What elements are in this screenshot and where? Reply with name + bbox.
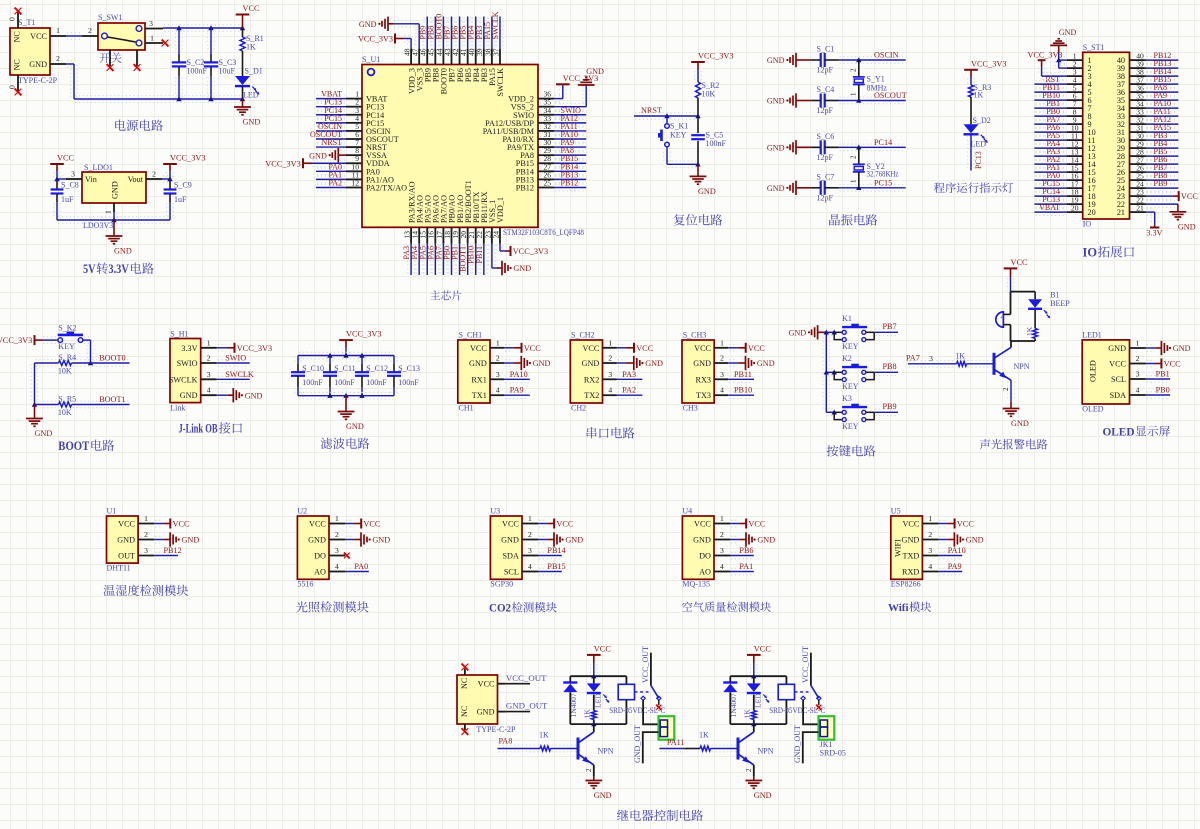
svg-text:NRST: NRST xyxy=(641,106,662,115)
svg-text:S_C10: S_C10 xyxy=(302,364,324,373)
svg-text:PA9: PA9 xyxy=(510,386,524,395)
U1 top net label wires xyxy=(424,17,503,49)
svg-text:100nF: 100nF xyxy=(187,67,208,76)
svg-text:VCC: VCC xyxy=(309,520,326,529)
net GND_OUT wire xyxy=(506,701,548,712)
svg-text:DO: DO xyxy=(699,552,711,561)
svg-text:CH2: CH2 xyxy=(571,404,586,413)
svg-text:VCC: VCC xyxy=(173,520,191,529)
svg-text:GND: GND xyxy=(582,359,600,368)
svg-text:TX3: TX3 xyxy=(696,391,711,400)
svg-text:100nF: 100nF xyxy=(366,378,387,387)
ground GND pin VSS_2 xyxy=(554,67,604,110)
svg-text:GND: GND xyxy=(966,536,984,545)
svg-text:24: 24 xyxy=(491,231,500,239)
svg-text:PA2/TX/AO: PA2/TX/AO xyxy=(366,183,407,192)
resistor S_R1 1K xyxy=(240,28,264,76)
display LED1 OLED body xyxy=(1082,331,1145,414)
resistor S_R2 10K xyxy=(696,81,720,116)
svg-text:2: 2 xyxy=(207,354,211,363)
svg-text:K3: K3 xyxy=(842,394,852,403)
svg-text:S_CH3: S_CH3 xyxy=(683,331,707,340)
title 温湿度检测模块 xyxy=(103,585,188,596)
capacitor S_C13 100nF xyxy=(387,356,420,396)
net PA2 S_CH2 pin4 xyxy=(617,386,643,399)
capacitor S_C11 100nF xyxy=(323,356,356,396)
svg-text:2: 2 xyxy=(850,155,858,159)
power port VCC_3V3 LDO out xyxy=(163,154,205,179)
svg-text:100nF: 100nF xyxy=(302,378,323,387)
svg-text:GND_OUT: GND_OUT xyxy=(793,725,802,763)
ground GND U5 pin2 xyxy=(938,532,983,546)
svg-text:VCC: VCC xyxy=(748,520,766,529)
LED S_D1 xyxy=(235,67,263,100)
svg-text:VCC_3V3: VCC_3V3 xyxy=(358,35,393,44)
svg-text:VCC: VCC xyxy=(902,520,919,529)
wire relay2 top node xyxy=(730,673,786,678)
svg-text:LED: LED xyxy=(243,91,259,100)
svg-text:2: 2 xyxy=(496,354,500,363)
power VCC U3 pin1 xyxy=(538,519,574,529)
U1 right pins and wires xyxy=(538,90,586,191)
relay1 contact blade xyxy=(635,685,662,710)
relay1 contact to connector xyxy=(643,700,658,724)
svg-text:4: 4 xyxy=(496,386,500,395)
title 滤波电路 xyxy=(321,438,370,449)
svg-text:SCL: SCL xyxy=(504,568,519,577)
svg-text:12pF: 12pF xyxy=(817,193,834,202)
svg-text:PA2: PA2 xyxy=(329,178,343,187)
ground GND LDO xyxy=(106,220,132,256)
svg-text:GND: GND xyxy=(513,264,531,273)
svg-text:VCC: VCC xyxy=(556,520,574,529)
svg-text:PA3: PA3 xyxy=(622,370,636,379)
U1 top net labels xyxy=(418,11,500,39)
svg-text:OLED: OLED xyxy=(1089,360,1098,382)
svg-text:NPN: NPN xyxy=(758,747,774,756)
connector S_H1 body xyxy=(169,330,217,413)
svg-text:GND: GND xyxy=(1178,222,1196,231)
svg-text:1K: 1K xyxy=(246,43,256,52)
ground GND crystal row 4 xyxy=(767,181,812,195)
svg-text:2: 2 xyxy=(144,530,148,539)
net PA9 S_CH1 pin4 xyxy=(504,386,530,399)
net GND_OUT relay1 xyxy=(633,725,659,763)
svg-text:PB7: PB7 xyxy=(883,322,897,331)
svg-text:SWCLK: SWCLK xyxy=(491,11,500,39)
svg-text:PB11: PB11 xyxy=(734,370,752,379)
capacitor S_C8 1uF xyxy=(51,179,79,220)
net label PC15 xyxy=(874,178,892,187)
svg-text:3: 3 xyxy=(608,370,612,379)
svg-text:S_C9: S_C9 xyxy=(174,181,192,190)
resistor S_R5 10K xyxy=(35,395,130,418)
svg-text:GND: GND xyxy=(754,791,772,800)
svg-text:VCC: VCC xyxy=(478,680,495,689)
svg-text:2: 2 xyxy=(745,768,753,772)
svg-text:1K: 1K xyxy=(743,709,752,719)
svg-text:PC15: PC15 xyxy=(874,178,892,187)
svg-text:RXD: RXD xyxy=(902,568,919,577)
svg-text:GND: GND xyxy=(586,67,604,76)
connector S_CH2 body xyxy=(570,331,616,413)
resistor 1K beeper xyxy=(1025,310,1038,341)
svg-text:4: 4 xyxy=(1136,386,1140,395)
svg-text:4: 4 xyxy=(928,562,932,571)
ground GND jlink pin4 xyxy=(217,388,263,402)
svg-text:S_C7: S_C7 xyxy=(817,172,835,181)
svg-text:GND: GND xyxy=(309,151,327,160)
svg-text:VCC: VCC xyxy=(57,154,75,163)
svg-text:25: 25 xyxy=(544,178,552,187)
svg-text:1: 1 xyxy=(528,514,532,523)
svg-text:K1: K1 xyxy=(842,314,852,323)
svg-text:2: 2 xyxy=(928,530,932,539)
svg-text:Vin: Vin xyxy=(85,175,97,184)
capacitor S_C5 100nF xyxy=(691,116,726,164)
net PB8 key xyxy=(874,362,898,376)
wire crystal row 3 xyxy=(839,144,906,151)
svg-text:VCC_3V3: VCC_3V3 xyxy=(237,344,273,353)
resistor S_R4 10K xyxy=(35,353,130,376)
capacitor S_C6 12pF xyxy=(812,132,839,162)
svg-text:VCC: VCC xyxy=(636,344,654,353)
svg-text:GND: GND xyxy=(29,60,47,69)
svg-text:GND: GND xyxy=(182,536,200,545)
svg-text:VCC: VCC xyxy=(524,344,542,353)
transistor NPN beeper xyxy=(994,341,1030,380)
relay2 contact to connector xyxy=(803,700,818,724)
ground GND S_CH2 pin2 xyxy=(617,356,664,370)
power port VCC beeper xyxy=(1004,258,1028,292)
net SWIO jlink pin2 xyxy=(217,354,250,367)
svg-text:4: 4 xyxy=(528,562,532,571)
power VCC S_CH1 pin1 xyxy=(504,343,541,353)
relay coil SRD-05VDC-SL-C relay2 xyxy=(769,676,825,724)
title J-Link OB接口 xyxy=(179,422,243,436)
wire LDO output xyxy=(162,176,173,183)
svg-text:OLED: OLED xyxy=(1082,405,1104,414)
svg-text:4: 4 xyxy=(720,386,724,395)
svg-text:S_K1: S_K1 xyxy=(670,122,688,131)
svg-text:S_C13: S_C13 xyxy=(398,364,420,373)
net PB6 U4 pin3 xyxy=(730,546,754,559)
net VCC_OUT wire xyxy=(506,673,547,684)
diode 1N4007 relay2 xyxy=(723,676,738,724)
ground GND power circuit xyxy=(234,99,260,127)
svg-text:2: 2 xyxy=(88,26,92,35)
ic S_U1 STM32F103C8T6 body xyxy=(362,55,584,237)
svg-text:KEY: KEY xyxy=(58,342,75,351)
svg-text:GND: GND xyxy=(243,118,261,127)
ground GND pin VSS_1 xyxy=(489,244,532,275)
S_ST1 left net labels xyxy=(1039,75,1060,212)
svg-text:3: 3 xyxy=(207,370,211,379)
capacitor S_C4 12pF xyxy=(812,85,839,115)
svg-text:WIFI: WIFI xyxy=(894,539,903,557)
svg-text:1: 1 xyxy=(56,26,60,35)
svg-text:VCC_3V3: VCC_3V3 xyxy=(971,59,1007,68)
svg-text:1K: 1K xyxy=(955,352,965,361)
net PB15 U3 pin4 xyxy=(538,562,566,575)
svg-text:1: 1 xyxy=(207,338,211,347)
module U5 WIFI label xyxy=(894,539,903,557)
svg-text:VCC_3V3: VCC_3V3 xyxy=(1028,51,1063,60)
svg-text:U2: U2 xyxy=(297,507,307,516)
ground GND relay1 xyxy=(585,777,611,800)
svg-text:12: 12 xyxy=(351,178,359,187)
svg-text:3.3V: 3.3V xyxy=(108,262,129,276)
power port VCC xyxy=(236,4,260,28)
svg-text:NC: NC xyxy=(460,677,469,689)
svg-text:PB15: PB15 xyxy=(547,562,565,571)
net PA10 U5 pin3 xyxy=(938,546,965,559)
svg-text:VCC_3V3: VCC_3V3 xyxy=(265,159,301,168)
title 声光报警电路 xyxy=(980,439,1048,450)
wire emitter gnd relay2 xyxy=(745,765,754,777)
svg-text:VCC_OUT: VCC_OUT xyxy=(801,646,810,683)
svg-text:12pF: 12pF xyxy=(817,106,834,115)
power port VCC_3V3 boot xyxy=(0,335,58,345)
module U5 ESP8266 body xyxy=(891,507,939,589)
svg-text:1: 1 xyxy=(850,92,858,96)
wire VCC rail top xyxy=(163,25,245,32)
svg-text:VCC: VCC xyxy=(694,520,711,529)
svg-text:2: 2 xyxy=(585,768,593,772)
svg-text:VCC: VCC xyxy=(754,645,772,654)
svg-text:5516: 5516 xyxy=(297,580,313,589)
svg-text:PA10: PA10 xyxy=(948,546,966,555)
U1 right net labels xyxy=(561,106,582,188)
svg-text:VCC_3V3: VCC_3V3 xyxy=(513,247,549,256)
svg-text:1N4007: 1N4007 xyxy=(729,693,738,717)
power VCC_3V3 pin VDD_1 xyxy=(497,244,549,256)
svg-text:PA0: PA0 xyxy=(354,562,368,571)
svg-text:GND: GND xyxy=(693,536,711,545)
key K3 KEY xyxy=(826,394,874,431)
svg-text:3.3V: 3.3V xyxy=(181,344,197,353)
svg-text:TX1: TX1 xyxy=(472,391,487,400)
title 复位电路 xyxy=(674,214,723,225)
svg-text:S_H1: S_H1 xyxy=(170,330,188,339)
wire crystal row 2 xyxy=(839,97,906,104)
power VCC IO pin23 xyxy=(1146,191,1199,201)
title IO拓展口 xyxy=(1083,246,1135,260)
svg-text:PB12: PB12 xyxy=(516,183,534,192)
ground GND U1 pin2 xyxy=(154,532,199,546)
svg-text:OSCIN: OSCIN xyxy=(874,51,899,60)
svg-text:SGP30: SGP30 xyxy=(490,580,513,589)
svg-text:S_Y1: S_Y1 xyxy=(867,75,885,84)
svg-text:S_C6: S_C6 xyxy=(817,132,835,141)
svg-text:S_ST1: S_ST1 xyxy=(1083,43,1105,52)
svg-text:PA9: PA9 xyxy=(948,562,962,571)
svg-text:KEY: KEY xyxy=(842,382,859,391)
wire key bus xyxy=(823,330,830,413)
wire reset bottom xyxy=(667,161,701,168)
svg-text:1K: 1K xyxy=(583,709,592,719)
title 按键电路 xyxy=(827,445,876,456)
svg-text:SWCLK: SWCLK xyxy=(169,375,198,384)
power port VCC relay2 xyxy=(747,645,771,677)
svg-text:GND: GND xyxy=(757,359,775,368)
net label PC13 indicator xyxy=(974,151,983,169)
svg-text:VCC: VCC xyxy=(582,344,599,353)
svg-text:4: 4 xyxy=(335,562,339,571)
net PB14 U3 pin3 xyxy=(538,546,566,559)
svg-text:TYPE-C-2P: TYPE-C-2P xyxy=(476,725,516,734)
svg-text:GND: GND xyxy=(359,20,377,29)
no-connect X U2 pin3 xyxy=(344,553,350,559)
svg-text:VCC_OUT: VCC_OUT xyxy=(506,673,547,683)
svg-text:NC: NC xyxy=(13,59,22,71)
svg-text:GND: GND xyxy=(477,708,495,717)
svg-text:Link: Link xyxy=(170,404,185,413)
svg-text:GND: GND xyxy=(767,97,785,106)
svg-text:PB1: PB1 xyxy=(1156,370,1170,379)
power VCC_3V3 pin VDDA xyxy=(265,158,346,168)
capacitor S_C9 1uF xyxy=(164,179,192,220)
net label BOOT0 xyxy=(99,354,125,363)
svg-text:RX3: RX3 xyxy=(696,375,711,384)
power port VCC relay1 xyxy=(587,645,611,677)
svg-text:4: 4 xyxy=(720,562,724,571)
svg-text:1K: 1K xyxy=(539,731,549,740)
svg-text:VCC: VCC xyxy=(1109,360,1126,369)
buzzer B1 BEEP xyxy=(996,291,1071,342)
svg-text:100nF: 100nF xyxy=(706,139,727,148)
svg-text:GND_OUT: GND_OUT xyxy=(633,725,642,763)
svg-text:VCC_3V3: VCC_3V3 xyxy=(346,330,382,339)
svg-text:GND: GND xyxy=(180,391,198,400)
key S_K2 KEY xyxy=(58,323,83,351)
power VCC S_CH3 pin1 xyxy=(728,343,765,353)
svg-text:PB10: PB10 xyxy=(734,386,752,395)
power port VCC_3V3 filter xyxy=(339,330,381,356)
svg-text:VCC: VCC xyxy=(594,645,612,654)
svg-text:AO: AO xyxy=(699,568,711,577)
key K2 KEY xyxy=(826,354,874,391)
svg-text:TX2: TX2 xyxy=(584,391,599,400)
svg-text:MQ-135: MQ-135 xyxy=(682,580,710,589)
svg-text:12pF: 12pF xyxy=(817,153,834,162)
svg-text:3: 3 xyxy=(496,370,500,379)
power VCC_3V3 IO pin3 xyxy=(1028,51,1067,80)
svg-text:CH3: CH3 xyxy=(683,404,698,413)
svg-text:3.3V: 3.3V xyxy=(1146,229,1162,238)
svg-text:1uF: 1uF xyxy=(174,195,187,204)
power VCC U5 pin1 xyxy=(938,519,974,529)
svg-text:VCC: VCC xyxy=(748,344,766,353)
svg-text:3: 3 xyxy=(928,546,932,555)
svg-text:SWCLK: SWCLK xyxy=(225,370,254,379)
svg-text:LDO3V3: LDO3V3 xyxy=(83,221,113,230)
svg-text:21: 21 xyxy=(1117,208,1125,217)
wire K2 to BOOT0 xyxy=(83,337,94,365)
power 3.3V IO pin21 xyxy=(1146,209,1163,238)
ground GND crystal row 3 xyxy=(767,140,812,154)
svg-text:VCC: VCC xyxy=(957,520,975,529)
svg-text:1: 1 xyxy=(608,338,612,347)
svg-text:37: 37 xyxy=(491,48,500,56)
svg-text:S_R5: S_R5 xyxy=(58,395,76,404)
U1 bottom pins xyxy=(403,227,501,244)
svg-text:LED: LED xyxy=(971,140,987,149)
svg-text:CO2: CO2 xyxy=(489,603,511,615)
net SWCLK jlink pin3 xyxy=(217,370,254,383)
net GND_OUT relay2 xyxy=(793,725,819,763)
svg-text:GND: GND xyxy=(902,536,920,545)
net PA0 U2 pin4 xyxy=(345,562,369,575)
svg-text:VCC: VCC xyxy=(30,32,47,41)
title 5V转3.3V电路 xyxy=(83,262,154,276)
svg-text:PB14: PB14 xyxy=(547,546,565,555)
svg-text:PA8: PA8 xyxy=(499,737,513,746)
LED relay2 xyxy=(747,676,770,708)
svg-text:BOOT: BOOT xyxy=(58,439,89,453)
svg-text:1: 1 xyxy=(150,34,154,43)
ground GND pin VSS_3 xyxy=(359,17,423,49)
svg-text:PC13: PC13 xyxy=(974,151,983,169)
wire filter bottom rail xyxy=(298,392,394,399)
svg-text:GND: GND xyxy=(1108,344,1126,353)
svg-text:U3: U3 xyxy=(490,507,500,516)
ground GND IO pin22 xyxy=(1146,201,1196,232)
capacitor S_C10 100nF xyxy=(291,356,324,396)
svg-text:S_CH2: S_CH2 xyxy=(571,331,595,340)
wire filter top rail xyxy=(298,352,394,359)
svg-text:VCC: VCC xyxy=(694,344,711,353)
svg-text:J-Link OB: J-Link OB xyxy=(179,422,218,436)
S_ST1 right net labels xyxy=(1154,51,1172,188)
connector S_CH1 body xyxy=(458,331,504,413)
regulator S_LDO1 xyxy=(66,163,162,214)
svg-text:3: 3 xyxy=(929,354,933,363)
net PA3 S_CH2 pin3 xyxy=(617,370,643,383)
svg-text:DHT11: DHT11 xyxy=(107,563,131,572)
svg-text:K2: K2 xyxy=(842,354,852,363)
svg-text:S_C11: S_C11 xyxy=(334,364,356,373)
svg-text:S_D1: S_D1 xyxy=(245,67,263,76)
svg-text:10K: 10K xyxy=(58,367,72,376)
svg-text:1: 1 xyxy=(720,338,724,347)
title OLED显示屏 xyxy=(1103,426,1170,439)
svg-text:ESP8266: ESP8266 xyxy=(891,580,921,589)
switch S_SW1 xyxy=(82,13,163,66)
svg-text:CH1: CH1 xyxy=(459,404,474,413)
capacitor S_C3 10uF xyxy=(204,28,236,99)
title 程序运行指示灯 xyxy=(934,182,1013,193)
svg-text:GND: GND xyxy=(372,536,390,545)
svg-text:3: 3 xyxy=(335,546,339,555)
svg-text:VBAT: VBAT xyxy=(1039,203,1060,212)
ground GND filter xyxy=(338,396,364,431)
svg-text:1K: 1K xyxy=(974,91,984,100)
svg-text:PA11: PA11 xyxy=(667,738,685,747)
wire NRST xyxy=(634,113,701,120)
svg-text:2: 2 xyxy=(720,354,724,363)
svg-text:10K: 10K xyxy=(702,90,716,99)
net PA7 base wire xyxy=(906,352,994,367)
svg-text:S_C4: S_C4 xyxy=(817,85,835,94)
svg-text:GND: GND xyxy=(594,791,612,800)
svg-text:SDA: SDA xyxy=(503,552,519,561)
svg-text:2: 2 xyxy=(608,354,612,363)
svg-text:GND: GND xyxy=(111,181,120,199)
svg-text:GND: GND xyxy=(346,422,364,431)
svg-text:S_K2: S_K2 xyxy=(58,323,76,332)
svg-text:U1: U1 xyxy=(107,507,117,516)
